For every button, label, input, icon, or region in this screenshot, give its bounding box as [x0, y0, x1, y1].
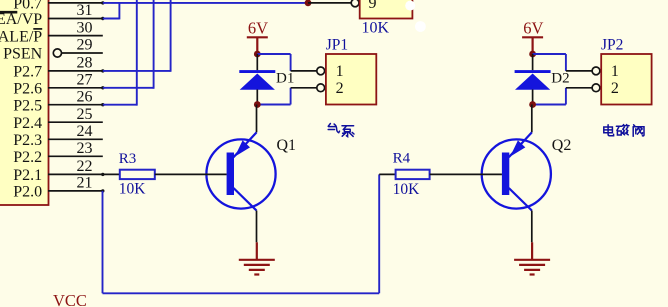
pin line 26 [48, 104, 103, 106]
junction dotlet [101, 173, 104, 176]
diode D2 triangle [515, 74, 550, 90]
wire: 6V to JP2 pin1 [533, 53, 566, 55]
connector JP1 body [326, 54, 376, 105]
wire: up to R4 [378, 174, 380, 293]
resistor pack body (clipped top) [360, 0, 413, 19]
svg-text:24: 24 [77, 123, 93, 140]
wire: diode anode to JP1 pin2 [257, 104, 290, 106]
pin circle JP2.1 [592, 67, 600, 75]
svg-text:Q1: Q1 [277, 137, 297, 154]
wire: into R4 [379, 173, 395, 175]
ground stem [531, 242, 533, 259]
diode D1 cathode bar [239, 70, 275, 73]
junction dotlet pin end [101, 86, 104, 89]
junction dot bottom [254, 101, 261, 108]
pin line JP1.2 [291, 87, 317, 89]
wire: bottom rail [103, 292, 380, 294]
wire: cathode vertical [256, 54, 258, 70]
wire: to Q1 emitter [256, 105, 258, 133]
wire: to Q2 emitter [531, 105, 533, 133]
svg-text:R4: R4 [393, 151, 411, 167]
overline over P of ALE/P [33, 28, 42, 30]
svg-text:P2.6: P2.6 [13, 81, 42, 98]
svg-text:JP1: JP1 [326, 37, 348, 54]
svg-text:30: 30 [77, 19, 93, 36]
pin line 22 [48, 173, 103, 175]
svg-text:23: 23 [77, 140, 93, 157]
svg-text:P2.3: P2.3 [13, 132, 42, 149]
white artifact dot 1 [405, 1, 415, 11]
wire: P2.5 up off-page [103, 104, 137, 106]
resistor R4 body [396, 170, 430, 179]
wire: collector down [531, 211, 533, 243]
transistor Q1 collector lead [234, 188, 257, 211]
svg-text:9: 9 [369, 0, 377, 12]
svg-text:EA/VP: EA/VP [0, 11, 42, 28]
IC U? body (8051, clipped at left/top) [0, 0, 49, 205]
pin line 29 [62, 52, 103, 54]
pin circle JP1.2 [317, 84, 325, 92]
svg-text:PSEN: PSEN [3, 46, 43, 63]
junction dotlet pin end [101, 69, 104, 72]
svg-text:26: 26 [77, 88, 93, 105]
svg-text:2: 2 [611, 80, 619, 97]
wire: P2.0 down [102, 191, 104, 293]
svg-text:10K: 10K [393, 181, 421, 198]
svg-text:10K: 10K [362, 20, 390, 37]
wire: P2.7 up off-page [103, 70, 171, 72]
pin line to resistor-pack pin 9 [308, 2, 351, 4]
wire: P0.7 rail blue [103, 2, 308, 4]
ground symbol [514, 259, 550, 261]
pin line 27 [48, 87, 103, 89]
pin line 31 [48, 18, 103, 20]
power bar 6V [522, 36, 543, 38]
svg-text:D2: D2 [551, 71, 569, 87]
overline over EA [0, 11, 17, 14]
transistor Q2 emitter arrow [510, 140, 525, 156]
svg-text:P2.2: P2.2 [13, 149, 42, 166]
wire: base from resistor [430, 173, 502, 175]
junction dotlet pin end [101, 17, 104, 20]
transistor Q2 circle [482, 139, 551, 208]
wire: EA/VP up to rail [103, 18, 120, 20]
transistor Q1 emitter arrow [235, 140, 250, 156]
wire: cathode vertical [532, 54, 534, 70]
pin line 21 [48, 190, 103, 192]
pin circle JP2.2 [592, 84, 600, 92]
label air-pump (qi beng) [328, 124, 354, 137]
wire: P2.6 up off-page [103, 87, 154, 89]
svg-text:22: 22 [77, 158, 93, 175]
junction dotlet pin end [101, 1, 104, 4]
svg-text:P2.1: P2.1 [13, 167, 42, 184]
transistor Q1 circle [206, 139, 275, 208]
power bar 6V [247, 36, 268, 38]
svg-text:1: 1 [336, 63, 344, 80]
pin line 32/P0.7 [48, 2, 103, 4]
resistor R3 body [120, 170, 155, 179]
pin 29 PSEN inversion circle [53, 49, 61, 57]
svg-text:P2.4: P2.4 [13, 115, 42, 132]
pin line 28 [48, 70, 103, 72]
svg-text:ALE/P: ALE/P [0, 28, 42, 45]
pin line 30 [48, 35, 103, 37]
svg-text:2: 2 [336, 80, 344, 97]
connector JP2 body [601, 54, 651, 105]
pin line JP2.1 [566, 70, 592, 72]
svg-text:1: 1 [611, 63, 619, 80]
pin line 25 [48, 121, 103, 123]
transistor Q2 collector lead [509, 188, 532, 211]
svg-text:25: 25 [77, 106, 93, 123]
svg-text:21: 21 [77, 175, 93, 192]
svg-text:6V: 6V [248, 19, 268, 38]
resistor R3 lead-in [103, 173, 120, 175]
junction dot top [254, 51, 261, 58]
junction dot bottom [529, 101, 536, 108]
svg-text:VCC: VCC [53, 291, 87, 307]
svg-text:Q2: Q2 [552, 137, 572, 154]
pin line JP1.1 [291, 70, 317, 72]
pin 9 inversion circle [351, 0, 359, 7]
ground symbol [239, 259, 275, 261]
svg-text:10K: 10K [119, 181, 147, 198]
ground stem [256, 242, 258, 259]
diode D2 cathode bar [515, 70, 551, 73]
junction dotlet pin end [101, 103, 104, 106]
junction dot top [529, 51, 536, 58]
junction dotlet pin end [101, 189, 104, 192]
diode D1 triangle [240, 74, 275, 90]
pin line 23 [48, 155, 103, 157]
junction dot on rail [305, 0, 312, 6]
svg-text:P2.5: P2.5 [13, 97, 42, 114]
transistor Q1 emitter lead [234, 132, 257, 157]
wire: anode vertical [256, 90, 258, 105]
power stem [531, 37, 533, 54]
pin circle JP1.1 [317, 67, 325, 75]
wire: base from resistor [155, 173, 227, 175]
svg-text:JP2: JP2 [601, 37, 623, 54]
label solenoid-valve (dian ci fa) [604, 125, 644, 137]
wire: 6V to JP1 pin1 [257, 53, 290, 55]
svg-text:6V: 6V [523, 19, 543, 38]
svg-text:R3: R3 [119, 151, 137, 167]
wire: collector down [256, 211, 258, 243]
svg-text:28: 28 [77, 55, 93, 72]
transistor Q2 emitter lead [509, 132, 532, 157]
svg-text:P2.7: P2.7 [13, 64, 42, 81]
svg-text:D1: D1 [276, 71, 294, 87]
svg-text:27: 27 [77, 72, 93, 89]
svg-text:29: 29 [77, 37, 93, 54]
transistor Q1 base bar [227, 153, 234, 196]
wire: anode vertical [532, 90, 534, 105]
svg-text:31: 31 [77, 2, 93, 19]
white artifact dot 2 [415, 21, 426, 32]
transistor Q2 base bar [502, 153, 509, 196]
pin line 24 [48, 138, 103, 140]
wire: diode anode to JP2 pin2 [533, 104, 566, 106]
power stem [256, 37, 258, 54]
pin line JP2.2 [566, 87, 592, 89]
svg-text:P2.0: P2.0 [13, 184, 42, 201]
